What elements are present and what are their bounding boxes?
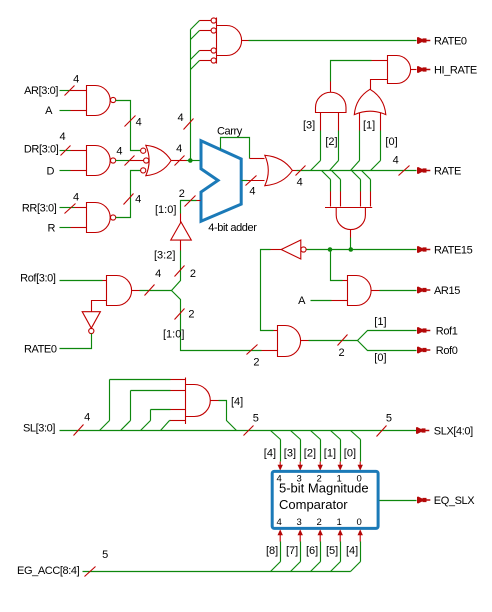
wire DR[3:0] input segment [60, 150, 71, 152]
wire U5 input tap diagonal 3 [191, 61, 200, 70]
and gate U11 (4-input, rotated down) [325, 208, 372, 230]
nand gate U3 (RR,R) [87, 203, 111, 233]
bus-width slash adder low input [185, 196, 196, 207]
inverter U15 (points down) [82, 312, 100, 329]
wire U5 input stub 0 [200, 20, 212, 22]
wire SLX tap diagonal bit 3 [291, 431, 301, 440]
svg-text:5: 5 [253, 412, 259, 424]
wire RATE0 output [242, 40, 249, 42]
output arrow Rof1 [417, 327, 430, 334]
svg-text:EG_ACC[8:4]: EG_ACC[8:4] [17, 565, 80, 577]
bus-width slash RR input [65, 204, 76, 214]
bus-width slash A4 bus [184, 119, 194, 130]
svg-text:[1]: [1] [374, 316, 386, 328]
svg-text:[4]: [4] [346, 545, 358, 557]
inverter bubble U4 input top [141, 148, 146, 153]
input arrow into comparator bottom pin 4 [278, 529, 283, 535]
wire SLX tap diagonal bit 4 [271, 431, 281, 440]
wire HI_RATE output [411, 69, 417, 71]
inverter U12 (points left) [281, 240, 301, 259]
bus-width slash U3 output vertical [124, 194, 134, 205]
wire EG_ACC tap vertical bit 5 [340, 542, 342, 562]
svg-text:[0]: [0] [374, 352, 386, 364]
wire RATE bit pin stub 0 [320, 113, 322, 131]
svg-text:Rof[3:0]: Rof[3:0] [20, 272, 56, 284]
svg-text:HI_RATE: HI_RATE [434, 65, 477, 77]
svg-text:[1]: [1] [324, 447, 336, 459]
svg-text:RATE0: RATE0 [434, 36, 467, 48]
wire RATE0 to U15 [60, 334, 92, 349]
wire RATE bit vertical 1 [338, 131, 340, 161]
svg-text:[0]: [0] [385, 136, 397, 148]
svg-text:4: 4 [73, 191, 79, 203]
svg-text:AR15: AR15 [434, 285, 460, 297]
svg-text:4: 4 [84, 412, 90, 424]
wire SL rail stub 0 [171, 379, 186, 381]
svg-text:[8]: [8] [266, 545, 278, 557]
svg-text:[6]: [6] [306, 545, 318, 557]
svg-text:4-bit adder: 4-bit adder [208, 222, 257, 234]
bus-width slash EG_ACC [85, 567, 96, 577]
wire D pin stub [71, 170, 87, 172]
wire U5 input stub 2 [200, 50, 212, 52]
inverter bubble U4 input bottom [141, 168, 146, 173]
svg-text:Rof0: Rof0 [436, 345, 458, 357]
wire RATE down pin stub 0 [330, 192, 332, 207]
svg-text:EQ_SLX: EQ_SLX [434, 495, 475, 507]
output arrow SLX[4:0] [416, 427, 429, 434]
bus-width slash SL input [74, 425, 84, 436]
wire RR pin stub [75, 207, 87, 209]
wire EG_ACC tap vertical bit 8 [280, 542, 282, 562]
wire SLX tap vertical bit 4 [280, 440, 282, 462]
wire U5 input tap diagonal 2 [191, 51, 200, 60]
svg-text:0: 0 [357, 517, 362, 528]
wire SL tap vertical 2 [150, 410, 152, 421]
wire EG_ACC tap vertical bit 6 [320, 542, 322, 562]
wire SL tap diagonal 3 [161, 421, 170, 431]
svg-text:RATE15: RATE15 [434, 245, 473, 257]
wire U18 output joins SLX bus [211, 400, 219, 402]
wire U4 output to node A4 [172, 160, 187, 162]
wire SL rail stub 3 [171, 420, 186, 422]
wire RATE bit pin stub 2 [359, 113, 361, 131]
svg-text:[3]: [3] [303, 120, 315, 132]
svg-text:3: 3 [297, 473, 302, 484]
junction dot node A4 junction [188, 158, 193, 163]
wire EG_ACC tap diagonal bit 6 [311, 562, 321, 572]
output arrow RATE0 [417, 37, 430, 44]
wire EG_ACC tap diagonal bit 8 [271, 562, 281, 572]
wire RATE tap down diagonal 3 [362, 171, 371, 180]
wire SLX tap vertical bit 1 [340, 440, 342, 462]
bus-width slash fork down [175, 309, 185, 320]
wire RATE15 branch down to U13 top input [331, 250, 343, 281]
wire RATE down pin stub 2 [360, 192, 362, 207]
svg-text:4: 4 [135, 194, 141, 206]
wire SL rail 0 [110, 379, 171, 381]
wire RATE down vertical 0 [330, 180, 332, 192]
svg-text:4: 4 [393, 155, 399, 167]
wire RATE down pin stub 3 [370, 192, 372, 207]
wire U5 input stub 1 [200, 30, 212, 32]
wire SL rail 3 [170, 420, 171, 422]
wire A input segment [60, 110, 71, 112]
svg-text:4: 4 [136, 117, 142, 129]
inverter bubble U5 input 0 [211, 18, 216, 23]
wire SL tap vertical 0 [109, 380, 111, 421]
inverter bubble U4 input middle [144, 158, 149, 163]
svg-text:[7]: [7] [286, 545, 298, 557]
bus-width slash Rof1/0 [338, 335, 348, 346]
wire U5 input tap diagonal 0 [191, 21, 200, 30]
bus-width slash adder sum [246, 176, 257, 186]
wire D input segment [60, 170, 71, 172]
svg-text:2: 2 [317, 517, 322, 528]
wire RATE15 net horizontal [307, 249, 417, 251]
bus-width slash AR input [65, 86, 75, 96]
junction dot node RATE15 from U11 [349, 247, 354, 252]
wire RATE bit tap up diagonal 1 [330, 161, 339, 171]
wire RATE bit tap up diagonal 3 [371, 161, 381, 171]
svg-text:RATE0: RATE0 [24, 343, 57, 355]
wire RATE down vertical 1 [340, 180, 342, 192]
svg-text:2: 2 [253, 356, 259, 368]
svg-text:2: 2 [188, 309, 194, 321]
inverter bubble U5 input 2 [211, 48, 216, 53]
wire RATE bus [293, 170, 297, 172]
svg-text:SL[3:0]: SL[3:0] [23, 423, 55, 435]
inverter bubble U3 output [111, 215, 116, 220]
wire SL tap diagonal 1 [121, 421, 131, 431]
svg-text:[1]: [1] [363, 120, 375, 132]
svg-text:R: R [47, 223, 55, 235]
bus-width slash RATE right [399, 166, 410, 176]
svg-text:SLX[4:0]: SLX[4:0] [434, 426, 473, 438]
wire SL tap vertical 1 [130, 391, 132, 421]
svg-text:5: 5 [386, 412, 392, 424]
wire SLX tap vertical bit 3 [300, 440, 302, 462]
and gate U10 (HI_RATE) [388, 56, 411, 84]
wire Rof1 branch [358, 331, 417, 341]
svg-text:0: 0 [357, 473, 362, 484]
inverter bubble U5 input 1 [211, 28, 216, 33]
svg-text:4: 4 [59, 131, 65, 143]
wire SLX tap vertical bit 0 [360, 440, 362, 462]
and gate U18 (SLX bit 4) [186, 378, 211, 425]
wire SLX tap diagonal bit 1 [331, 431, 341, 440]
svg-text:2: 2 [179, 188, 185, 200]
junction dot node RATE15 branch to U13 [328, 247, 333, 252]
wire RATE bit vertical 3 [380, 131, 382, 161]
bus-width slash U4 output [175, 156, 185, 166]
wire RATE bit tap up diagonal 0 [311, 161, 321, 171]
output arrow RATE15 [417, 246, 430, 253]
5-bit magnitude comparator U19 [272, 471, 378, 528]
wire U8 output to U10 top input [330, 82, 332, 93]
svg-text:DR[3:0]: DR[3:0] [24, 144, 59, 156]
svg-text:4: 4 [249, 186, 255, 198]
svg-text:5-bit Magnitude: 5-bit Magnitude [279, 481, 369, 496]
wire bus node A4 up to U5 taps [190, 30, 192, 161]
wire RATE bit vertical 0 [320, 131, 322, 161]
4-bit adder U6 [201, 141, 241, 222]
svg-text:[1:0]: [1:0] [155, 204, 176, 216]
nand gate U2 (DR,D) [87, 146, 111, 176]
wire U9 output to U10 bottom input [371, 80, 388, 90]
svg-text:4: 4 [116, 145, 122, 157]
svg-text:4: 4 [176, 143, 182, 155]
nor gate U5 (4 inverted inputs, RATE0) [217, 18, 242, 64]
wire RATE bit tap up diagonal 2 [351, 161, 360, 171]
svg-text:Rof1: Rof1 [436, 326, 458, 338]
input arrow into comparator bottom pin 2 [318, 529, 323, 535]
input arrow into comparator top pin 1 [339, 462, 341, 466]
input arrow into comparator top pin 4 [279, 462, 281, 466]
wire EG_ACC bus [83, 571, 351, 573]
wire R pin stub [71, 227, 87, 229]
wire EG_ACC tap diagonal bit 4 [351, 562, 361, 572]
output arrow Rof0 [417, 347, 430, 354]
wire AR pin stub [71, 90, 87, 92]
svg-text:[1:0]: [1:0] [163, 328, 184, 340]
svg-text:RR[3:0]: RR[3:0] [22, 203, 57, 215]
svg-text:AR[3:0]: AR[3:0] [24, 85, 58, 97]
bus-width slash buffer input [175, 266, 185, 277]
input arrow into comparator top pin 0 [359, 462, 361, 466]
wire Rof[3:0] input [60, 280, 103, 282]
wire RATE down pin stub 1 [340, 192, 342, 207]
wire U1 output to node [116, 101, 141, 151]
bus-width slash U1 output vertical [125, 116, 136, 127]
output arrow EQ_SLX [417, 497, 430, 504]
bus-width slash DR input [61, 146, 71, 156]
wire SLX tap diagonal bit 2 [311, 431, 321, 440]
inverter bubble U15 output [89, 328, 94, 333]
output arrow RATE [417, 167, 430, 174]
svg-text:A: A [298, 295, 306, 307]
wire A input to U13 [311, 300, 332, 302]
and gate U17 (Rof1/Rof0) [278, 326, 301, 357]
wire SL rail 1 [131, 390, 171, 392]
svg-text:5: 5 [102, 549, 108, 561]
buffer U16 (points up) [171, 222, 192, 240]
svg-text:[5]: [5] [326, 545, 338, 557]
svg-text:2: 2 [190, 268, 196, 280]
and gate U13 (AR15) [348, 276, 372, 306]
input arrow into comparator bottom pin 1 [338, 529, 343, 535]
svg-text:4: 4 [177, 112, 183, 124]
wire RATE down vertical 2 [360, 180, 362, 192]
wire fork up branch [3:2] to buffer U16 [172, 251, 181, 291]
svg-text:A: A [45, 105, 53, 117]
wire EQ_SLX output [380, 500, 417, 502]
input arrow into comparator top pin 2 [319, 462, 321, 466]
inverter bubble U2 output [111, 158, 116, 163]
wire RATE bit pin stub 1 [338, 113, 340, 131]
input arrow into comparator bottom pin 0 [358, 529, 363, 535]
inverter bubble U12 input-side [301, 247, 306, 252]
svg-text:2: 2 [317, 473, 322, 484]
output arrow HI_RATE [417, 66, 430, 73]
wire U14 output to fork [132, 290, 140, 292]
input arrow into comparator bottom pin 3 [298, 529, 303, 535]
wire U5 input stub 3 [200, 60, 212, 62]
wire A pin stub [71, 110, 87, 112]
wire SLX tap vertical bit 2 [320, 440, 322, 462]
wire U12 output to U17 top input [271, 249, 282, 251]
svg-text:3: 3 [297, 517, 302, 528]
wire EG_ACC tap vertical bit 7 [300, 542, 302, 562]
wire U16 output to adder low input [180, 214, 182, 223]
wire RR[3:0] input segment [60, 207, 75, 209]
nor gate U4 (3 inverted inputs) [146, 145, 171, 175]
inverter bubble U5 input 3 [211, 58, 216, 63]
wire SL bus [60, 430, 417, 432]
wire SLX tap diagonal bit 0 [351, 431, 361, 440]
wire SL rail 2 [151, 409, 171, 411]
svg-text:4: 4 [73, 74, 79, 86]
wire U15 output to U14 bottom input [92, 301, 107, 312]
svg-text:4: 4 [277, 517, 282, 528]
wire RATE down vertical 3 [370, 180, 372, 192]
wire fork down branch [1:0] to U17 [172, 291, 262, 351]
svg-text:[3:2]: [3:2] [154, 249, 175, 261]
and gate U8 (bits 3,2) [316, 92, 347, 112]
wire RATE tap down diagonal 0 [322, 171, 331, 180]
wire EG_ACC tap diagonal bit 7 [291, 562, 301, 572]
wire U3 output up to U4 bottom input [116, 171, 141, 218]
svg-text:1: 1 [337, 473, 342, 484]
wire Carry from adder to U7 top input [221, 138, 250, 159]
wire U11 output down to RATE15 node [350, 230, 352, 238]
svg-text:[0]: [0] [344, 447, 356, 459]
wire RATE bit vertical 2 [359, 131, 361, 161]
svg-text:Comparator: Comparator [279, 497, 348, 512]
svg-text:[3]: [3] [284, 447, 296, 459]
svg-text:D: D [46, 166, 54, 178]
wire RATE tap down diagonal 2 [352, 171, 361, 180]
wire RATE bit pin stub 3 [380, 113, 382, 131]
bus-width slash RATE left [296, 166, 306, 176]
svg-text:4: 4 [297, 177, 303, 189]
svg-text:RATE: RATE [434, 166, 461, 178]
wire U2 output to U4 middle input [116, 160, 131, 162]
bus-width slash SLX end [377, 426, 387, 437]
wire DR pin stub [71, 150, 87, 152]
wire AR15 output [372, 290, 380, 292]
bus-width slash U2 output [125, 156, 135, 166]
or gate U7 (RATE) [265, 155, 293, 185]
svg-text:[2]: [2] [304, 447, 316, 459]
svg-text:[2]: [2] [325, 136, 337, 148]
svg-text:2: 2 [338, 347, 344, 359]
wire RATE tap down diagonal 1 [332, 171, 341, 180]
bus-width slash SLX join [244, 426, 254, 436]
wire EG_ACC tap vertical bit 4 [360, 542, 362, 562]
wire SL rail stub 2 [171, 409, 186, 411]
svg-text:1: 1 [337, 517, 342, 528]
wire SL rail stub 1 [171, 390, 186, 392]
nand gate U1 (AR,A) [87, 86, 111, 116]
or gate U9 (bits 1,0) [354, 89, 386, 114]
and gate U14 (Rof) [107, 276, 132, 306]
svg-text:[4]: [4] [231, 396, 243, 408]
wire Rof0 branch [358, 341, 417, 351]
wire adder sum output to U7 bottom input [242, 180, 248, 182]
svg-text:[4]: [4] [264, 447, 276, 459]
bus-width slash Rof output [145, 285, 155, 296]
svg-text:4: 4 [155, 268, 161, 280]
output arrow AR15 [417, 287, 430, 294]
wire U5 input tap diagonal 1 [191, 31, 200, 40]
bus-width slash U17 input [247, 345, 258, 355]
wire SL tap diagonal 2 [141, 421, 151, 431]
svg-text:4: 4 [277, 473, 282, 484]
inverter bubble U1 output [111, 97, 116, 102]
wire R input segment [60, 227, 71, 229]
wire SL tap diagonal 0 [100, 421, 110, 431]
svg-text:Carry: Carry [217, 126, 243, 138]
wire AR[3:0] input segment [60, 90, 71, 92]
wire EG_ACC tap diagonal bit 5 [331, 562, 341, 572]
input arrow into comparator top pin 3 [299, 462, 301, 466]
wire U17 output to fork [301, 340, 309, 342]
